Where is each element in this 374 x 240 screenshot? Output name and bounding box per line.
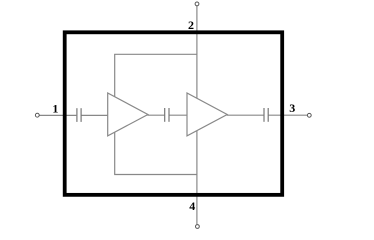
wire: U1 output to C2 (148, 114, 165, 116)
capacitor C1 plate right (80, 108, 82, 122)
svg-text:3: 3 (289, 101, 295, 115)
case outline (thick package box) (65, 32, 283, 195)
wire: C1 to amplifier U1 input (81, 114, 108, 116)
wire: feedback loop top (114, 53, 197, 55)
wire: feedback loop bottom (114, 174, 197, 176)
terminal pin 3 (307, 113, 311, 117)
terminal pin 4 (196, 225, 200, 229)
svg-text:1: 1 (52, 102, 58, 116)
capacitor C2 plate right (168, 108, 170, 122)
wire: C3 to pin 3 (268, 114, 307, 116)
op-amp U1 (first buffer stage triangle) (108, 93, 148, 136)
wire: feedback loop left side (114, 54, 116, 174)
wire: U2 output to C3 (227, 114, 264, 116)
capacitor C3 plate right (267, 108, 269, 122)
wire: pin 2 to pin 4 vertical net (196, 6, 198, 224)
wire: C2 to amplifier U2 input (169, 114, 188, 116)
capacitor C1 plate left (76, 108, 78, 122)
op-amp U2 (second buffer stage triangle) (187, 93, 227, 136)
svg-text:2: 2 (188, 18, 194, 32)
capacitor C3 plate left (263, 108, 265, 122)
wire: pin 1 to C1 (40, 114, 77, 116)
svg-text:4: 4 (189, 199, 195, 213)
capacitor C2 plate left (164, 108, 166, 122)
terminal pin 2 (195, 2, 199, 6)
terminal pin 1 (35, 113, 39, 117)
